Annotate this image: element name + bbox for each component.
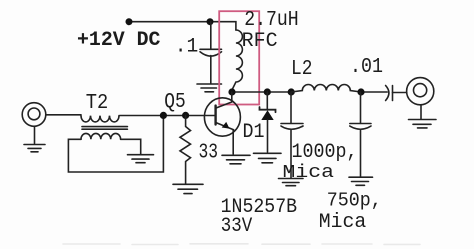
output connector <box>407 78 434 105</box>
junction dot zener node <box>264 88 271 95</box>
node +12V feed dot <box>126 18 133 25</box>
svg-text:Mica: Mica <box>283 162 335 183</box>
junction dot collector node <box>228 88 235 95</box>
ground for D1 <box>254 153 282 163</box>
ground for .1 cap <box>197 84 222 92</box>
inductor RFC <box>232 30 242 90</box>
capacitor .1 bypass <box>200 22 222 84</box>
ground for 750p <box>349 177 373 185</box>
transformer T2 secondary winding <box>81 133 121 139</box>
inductor L2 <box>291 85 361 93</box>
capacitor 1000p <box>281 92 303 178</box>
svg-text:33: 33 <box>199 141 219 165</box>
junction dot resistor top <box>182 112 189 119</box>
ground for 1000p <box>279 179 304 186</box>
junction dot bypass cap top <box>207 18 214 25</box>
svg-text:Mica: Mica <box>319 211 367 234</box>
resistor 33 <box>180 115 191 184</box>
svg-text:1000p,: 1000p, <box>292 141 358 164</box>
input connector <box>22 103 81 127</box>
junction dot base/loop node <box>160 112 167 119</box>
svg-text:.1: .1 <box>175 36 199 59</box>
svg-text:+12V DC: +12V DC <box>77 29 161 52</box>
ground for output connector <box>409 106 437 128</box>
capacitor .01 series <box>386 86 407 101</box>
svg-text:L2: L2 <box>291 57 313 81</box>
svg-text:D1: D1 <box>243 121 265 144</box>
wire secondary feedback loop <box>68 116 163 173</box>
ground for resistor <box>173 184 203 193</box>
wire top supply rail <box>129 22 236 30</box>
wire base rail <box>120 115 216 117</box>
wire collector rail left segment <box>232 91 291 93</box>
highlight box around RFC (pink annotation) <box>219 11 259 104</box>
svg-text:.01: .01 <box>350 55 383 79</box>
faint caption remnant at bottom edge <box>63 243 420 246</box>
transistor Q5 <box>204 92 240 154</box>
transformer T2 primary winding <box>81 116 119 122</box>
svg-text:T2: T2 <box>86 92 109 115</box>
diode D1 zener <box>260 92 276 152</box>
svg-text:33V: 33V <box>221 215 253 238</box>
wire secondary right to ground <box>121 139 141 154</box>
ground for input connector <box>24 126 45 152</box>
ground for emitter <box>222 155 250 164</box>
svg-text:750p,: 750p, <box>327 190 382 212</box>
svg-text:RFC: RFC <box>242 30 278 53</box>
wire collector rail right segment <box>361 91 387 93</box>
ground for T2 secondary <box>128 155 154 163</box>
svg-text:2.7uH: 2.7uH <box>244 9 299 32</box>
junction dot L2/1000p node <box>288 88 295 95</box>
transformer T2 core <box>82 127 127 130</box>
svg-text:Q5: Q5 <box>164 91 186 114</box>
junction dot 750p node <box>357 88 364 95</box>
capacitor 750p <box>350 92 371 177</box>
